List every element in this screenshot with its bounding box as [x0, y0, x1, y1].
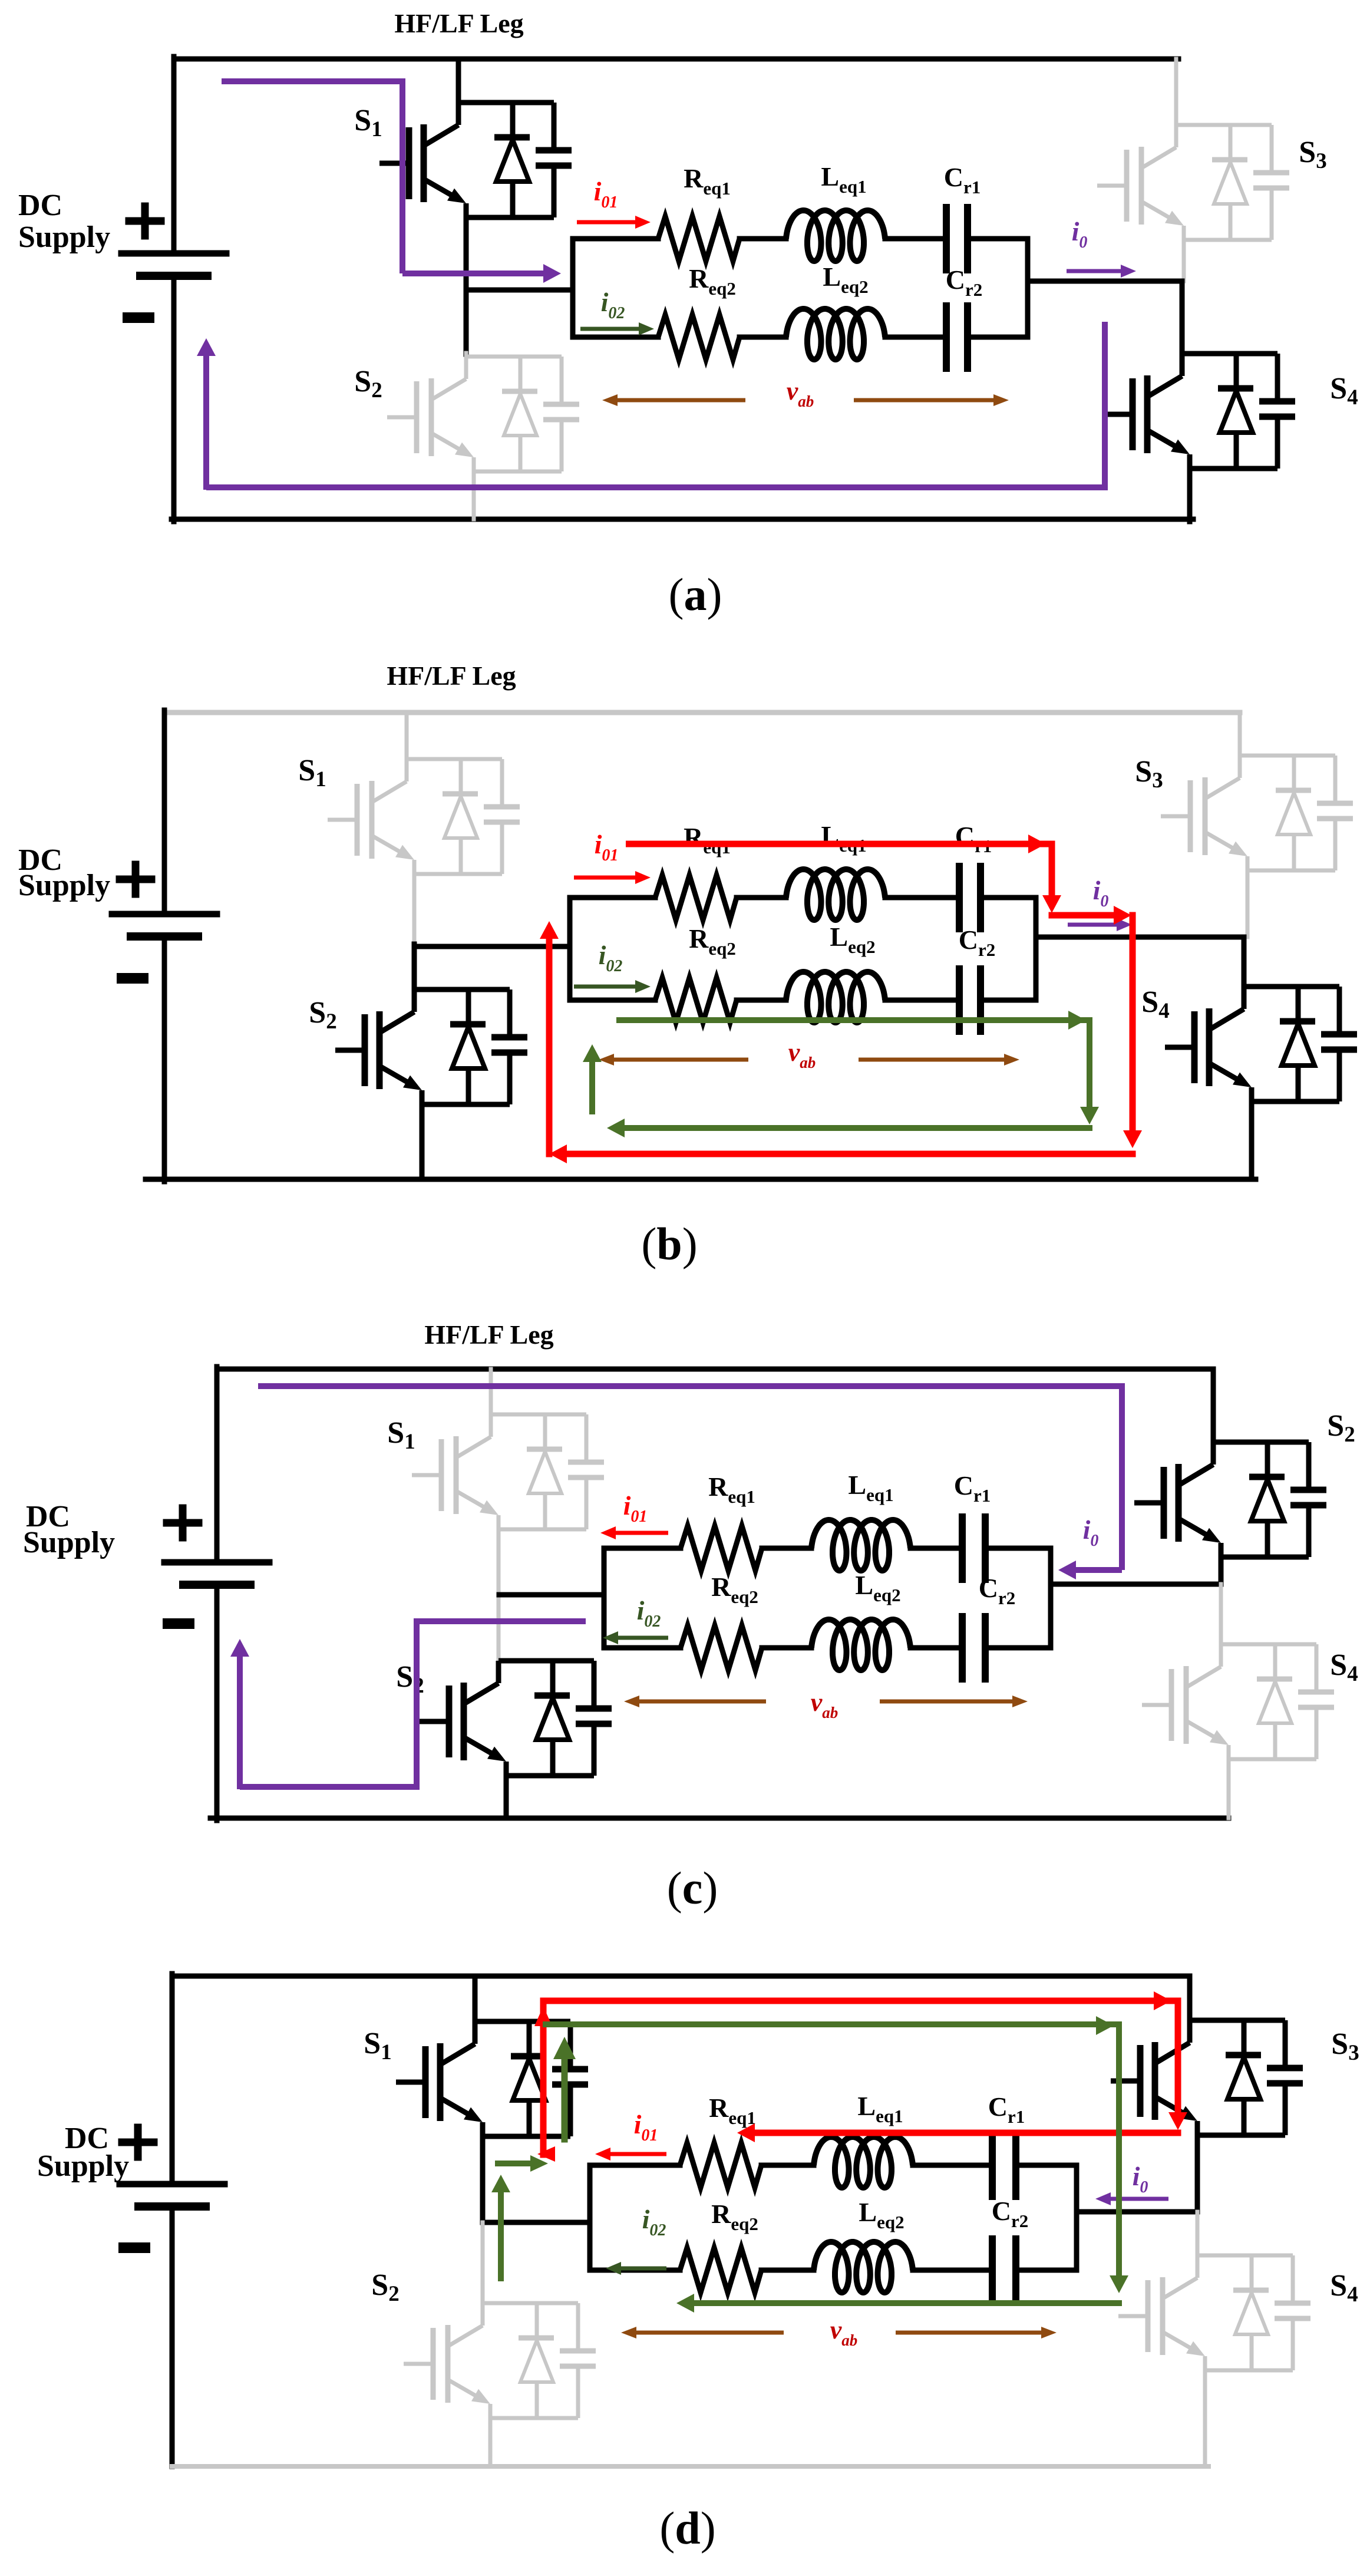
IGBT transistor S3 (d) [1111, 2042, 1191, 2120]
plus terminal (b) [116, 876, 156, 883]
green path bottom return (b) [625, 1125, 1090, 1131]
wire: bottom rail (a) [171, 517, 1193, 522]
IGBT transistor S3 (b) [1161, 777, 1241, 855]
tank (c): top branch wire [604, 1546, 681, 1551]
IGBT module S1 (c): loop frame [491, 1414, 586, 1529]
wire: S1 collector stem (a) [456, 59, 461, 103]
green path up through S1 cap (d) [562, 2057, 568, 2139]
antiparallel diode of S2 (c) [534, 1661, 570, 1776]
DC supply battery [164, 1559, 269, 1566]
plus terminal (a) [126, 217, 165, 225]
antiparallel diode of S2-right (c) [1249, 1442, 1285, 1557]
svg-text:(a): (a) [669, 569, 722, 620]
IGBT module S1 (b): loop frame [407, 759, 502, 874]
green path bottom return (d) [694, 2300, 1119, 2306]
antiparallel diode of S1 (a) [494, 103, 530, 217]
tank (c): left node bar [602, 1548, 607, 1648]
IGBT transistor S2-right (c) [1134, 1464, 1214, 1542]
purple current path through S1 (a) [222, 81, 402, 273]
resistor Req2 (c) [681, 1625, 762, 1670]
IGBT module S4 (c): loop frame [1221, 1644, 1316, 1759]
IGBT transistor S4 (d) [1118, 2277, 1199, 2355]
wire: bottom rail (c) [210, 1816, 1229, 1821]
capacitor Cr1 (d) [989, 2134, 996, 2196]
capacitor Cr2 (d) [989, 2239, 996, 2301]
wire: top rail (c) [217, 1367, 1213, 1372]
tank (b): right node bar [1034, 898, 1039, 1000]
antiparallel diode of S1 (b) [443, 759, 478, 874]
wire: left rail upper (a) [171, 57, 177, 253]
purple return arrow up to battery (a) [203, 349, 209, 490]
antiparallel diode of S2 (d) [519, 2303, 554, 2418]
green path up (b) [589, 1061, 595, 1111]
capacitor Cr2 (c) [959, 1617, 966, 1679]
tank (c): right node bar [1048, 1548, 1054, 1648]
minus terminal (c) [163, 1618, 194, 1629]
wire: S2 emitter to bottom rail (a) - inactive [472, 471, 476, 519]
wire: S1 collector stem (b) - inactive [405, 713, 409, 759]
IGBT module S2 (a): loop frame [466, 357, 562, 471]
wire: S3 emitter to node B (d) [1195, 2133, 1200, 2212]
svg-text:DC: DC [18, 189, 62, 222]
tank (b): top branch wire [570, 895, 655, 901]
IGBT transistor S1 (b) [328, 781, 408, 859]
wire: S4 emitter to bottom rail (a) [1187, 467, 1193, 522]
wire: S2-right collector stem (c) [1211, 1369, 1216, 1442]
current arrow i01 (d) [605, 2152, 666, 2156]
snubber capacitor of S1 (c) [568, 1414, 604, 1529]
red current path top (b) [626, 841, 1052, 847]
vab arrow left (c) [633, 1700, 766, 1704]
wire: node A to S2 collector (b) [412, 944, 417, 989]
resistor Req2 (b) [655, 978, 737, 1023]
purple path from node A down left (c) [240, 1621, 586, 1787]
resistor Req2 (a) [658, 315, 740, 359]
wire: S2 emitter to bottom rail (b) [420, 1103, 425, 1179]
snubber capacitor of S2 (b) [491, 989, 527, 1104]
capacitor Cr1 (a) [943, 207, 950, 270]
inductor Leq2 (d) [814, 2242, 913, 2293]
IGBT transistor S1 (a) [379, 124, 460, 202]
svg-text:Supply: Supply [23, 1526, 115, 1559]
red path top rail (d) [543, 1998, 1178, 2004]
svg-text:HF/LF Leg: HF/LF Leg [387, 661, 516, 691]
snubber capacitor of S2 (c) [576, 1661, 612, 1776]
IGBT transistor S2 (d) [404, 2325, 484, 2403]
DC supply battery [112, 911, 217, 918]
capacitor Cr1 (b) [956, 866, 963, 929]
snubber capacitor of S1 (a) [536, 103, 572, 217]
capacitor Cr1 (c) [959, 1517, 966, 1579]
tank (d): right node bar [1074, 2165, 1080, 2270]
purple current path arrow into node A (a) [402, 271, 550, 276]
wire: left rail lower (a) [171, 275, 177, 522]
wire: left rail lower (b) [162, 935, 167, 1182]
wire: S3 collector stem (d) [1187, 1976, 1193, 2020]
IGBT transistor S1 (c) [412, 1436, 492, 1514]
tank (b): left node bar [567, 898, 573, 1000]
purple current path top and right (c) [258, 1386, 1122, 1570]
svg-text:(b): (b) [641, 1218, 697, 1269]
red path right along node B (b) [1052, 912, 1114, 919]
IGBT module S1 (d): loop frame [475, 2021, 570, 2136]
capacitor Cr2 (a) [943, 306, 950, 368]
antiparallel diode of S4 (c) [1257, 1644, 1292, 1759]
wire: left rail upper (d) [170, 1974, 175, 2184]
battery plates (a) [121, 250, 226, 257]
wire: S1 emitter to node A (b) - inactive [412, 874, 417, 946]
snubber capacitor of S4 (c) [1298, 1644, 1334, 1759]
tank (d): top branch wire [590, 2163, 680, 2168]
antiparallel diode of S2 (a) [502, 357, 537, 471]
snubber capacitor of S1 (d) [552, 2021, 588, 2136]
IGBT module S2 (d): loop frame [483, 2303, 578, 2418]
wire: S2-right emitter to node B (c) [1219, 1555, 1224, 1584]
inductor Leq2 (b) [786, 972, 885, 1023]
wire: node B to S4 collector (a) [1180, 281, 1185, 354]
current arrow i02 (c) [612, 1636, 668, 1640]
antiparallel diode of S4 (d) [1233, 2255, 1269, 2370]
tank (d): bottom branch wire [590, 2268, 680, 2273]
wire: node A to S2 collector (d) - inactive [481, 2222, 485, 2303]
snubber capacitor of S4 (b) [1321, 987, 1357, 1101]
vab arrow left (b) [608, 1058, 748, 1062]
inductor Leq2 (a) [786, 309, 885, 359]
wire: left rail lower (c) [214, 1584, 220, 1820]
wire: S1 emitter to node A (a) [464, 216, 469, 354]
IGBT transistor S3 (a) [1097, 147, 1177, 225]
inductor Leq1 (b) [786, 869, 885, 920]
resistor Req1 (a) [658, 216, 740, 261]
wire: S4 emitter to bottom rail (b) [1249, 1100, 1255, 1179]
resistor Req1 (b) [655, 875, 737, 920]
snubber capacitor of S2 (d) [560, 2303, 596, 2418]
antiparallel diode of S4 (a) [1218, 354, 1253, 469]
svg-text:Supply: Supply [18, 220, 110, 254]
red path up through S1 diode (d) [540, 2003, 547, 2155]
vab arrow right (c) [880, 1700, 1018, 1704]
snubber capacitor of S2-right (c) [1290, 1442, 1326, 1557]
vab arrow right (d) [896, 2331, 1047, 2335]
wire: top rail (a) [174, 57, 1178, 62]
DC supply battery [120, 2181, 225, 2188]
svg-text:Supply: Supply [18, 869, 110, 902]
tank (a): top branch wire [573, 236, 658, 242]
svg-text:HF/LF Leg: HF/LF Leg [424, 1320, 553, 1350]
wire: S2 emitter to bottom rail (d) - inactive [488, 2418, 493, 2466]
IGBT module S2 (b): loop frame [414, 989, 510, 1104]
tank (a): left node bar [570, 239, 576, 337]
svg-text:Supply: Supply [37, 2149, 129, 2183]
red path down to node B (b) [1049, 844, 1055, 893]
purple current path right leg down (a) [206, 322, 1105, 487]
current arrow i01 (b) [574, 876, 641, 880]
tank (b): bottom branch wire [570, 998, 655, 1003]
snubber capacitor of S3 (a) [1253, 125, 1289, 240]
wire: S3 emitter to node B (a) - inactive [1182, 240, 1186, 281]
IGBT transistor S2 (c) [420, 1683, 500, 1760]
IGBT transistor S4 (a) [1103, 375, 1183, 453]
snubber capacitor of S1 (b) [484, 759, 520, 874]
green arrow into node A (d) [498, 2161, 530, 2166]
antiparallel diode of S3 (a) [1212, 125, 1247, 240]
current arrow i0 (d) [1105, 2197, 1168, 2201]
svg-text:(d): (d) [659, 2502, 715, 2554]
wire: S3 collector stem (b) - inactive [1238, 713, 1242, 756]
inductor Leq1 (c) [811, 1520, 910, 1571]
IGBT module S3 (a): loop frame [1176, 125, 1272, 240]
IGBT module S3 (d): loop frame [1190, 2020, 1285, 2135]
wire: node B to S4 collector (d) - inactive [1196, 2212, 1200, 2255]
IGBT transistor S2 (b) [335, 1011, 415, 1089]
plus terminal (d) [118, 2139, 158, 2146]
wire: S1 emitter down through node A (c) - inactive [497, 1529, 501, 1661]
wire: S3 collector stem (a) - inactive [1174, 59, 1178, 125]
IGBT transistor S1 (d) [396, 2043, 476, 2121]
svg-text:HF/LF Leg: HF/LF Leg [394, 8, 523, 38]
antiparallel diode of S2 (b) [450, 989, 486, 1104]
antiparallel diode of S1 (c) [527, 1414, 562, 1529]
vab arrow left (d) [630, 2331, 784, 2335]
green path top (d) [546, 2021, 1119, 2027]
snubber capacitor of S2 (a) [543, 357, 579, 471]
wire: S1 collector stem (c) - inactive [489, 1369, 493, 1414]
vab arrow left (a) [612, 398, 745, 403]
tank (d): left node bar [587, 2165, 593, 2270]
wire: bottom rail (b) [146, 1177, 1256, 1182]
green path down (b) [1087, 1020, 1092, 1105]
snubber capacitor of S3 (d) [1267, 2020, 1303, 2135]
purple return arrow up to battery (c) [237, 1650, 243, 1789]
current arrow i02 (d) [615, 2267, 666, 2271]
wire: node B to S4 collector (b) [1242, 937, 1247, 987]
current arrow i0 (b) [1068, 923, 1123, 927]
wire: S3 emitter to node B (b) - inactive [1246, 870, 1250, 937]
antiparallel diode of S3 (d) [1226, 2020, 1261, 2135]
wire: top rail (b) - inactive [167, 710, 1240, 715]
plus terminal (c) [163, 1519, 203, 1527]
wire: S1 collector stem (d) [473, 1976, 478, 2021]
minus terminal (a) [123, 312, 154, 323]
vab arrow right (a) [854, 398, 999, 403]
resistor Req1 (c) [681, 1526, 762, 1571]
inductor Leq2 (c) [811, 1620, 910, 1670]
capacitor Cr2 (b) [956, 969, 963, 1031]
resistor Req2 (d) [680, 2248, 761, 2293]
wire: left rail upper (c) [214, 1367, 220, 1562]
red path down S4 side (b) [1130, 915, 1136, 1129]
IGBT transistor S4 (b) [1165, 1008, 1245, 1086]
IGBT transistor S2 (a) [387, 378, 467, 456]
wire: node A horizontal (b) [414, 944, 570, 949]
antiparallel diode of S4 (b) [1280, 987, 1315, 1101]
red return path into tank (d) [754, 2130, 1178, 2136]
tank (a): right node bar [1025, 239, 1031, 337]
current arrow i01 (a) [577, 220, 641, 225]
wire: S4 emitter to bottom rail (d) - inactive [1203, 2370, 1207, 2466]
wire: S2 emitter to bottom rail (c) [504, 1774, 509, 1818]
IGBT module S3 (b): loop frame [1240, 756, 1335, 870]
wire: node A horizontal (d) [483, 2220, 590, 2225]
vab arrow right (b) [859, 1058, 1010, 1062]
wire: left rail upper (b) [162, 710, 167, 914]
wire: node A to S2 collector (a) - inactive [464, 353, 468, 357]
purple arrow into node B (c) [1069, 1567, 1122, 1573]
current arrow i01 (c) [610, 1531, 668, 1535]
IGBT module S4 (d): loop frame [1197, 2255, 1293, 2370]
green path down right side (d) [1116, 2026, 1122, 2275]
wire: node A horizontal (c) [499, 1592, 604, 1598]
wire: node A horizontal (a) [466, 288, 573, 293]
IGBT module S1 (a): loop frame [458, 103, 554, 217]
current arrow i02 (b) [574, 985, 641, 989]
IGBT module S4 (a): loop frame [1182, 354, 1277, 469]
IGBT module S4 (b): loop frame [1244, 987, 1339, 1101]
red path up into node A (b) [546, 938, 553, 1154]
inductor Leq1 (d) [814, 2137, 913, 2188]
wire: node B horizontal (a) [1028, 279, 1182, 284]
wire: S1 emitter to node A (d) [480, 2135, 486, 2222]
minus terminal (b) [117, 973, 148, 984]
wire: bottom rail (d) - inactive [172, 2464, 1209, 2469]
wire: left rail lower (d) [170, 2205, 175, 2466]
IGBT module S2 (c): loop frame [499, 1661, 594, 1776]
svg-text:(c): (c) [667, 1862, 718, 1914]
red path bottom return (b) [566, 1151, 1133, 1157]
tank (c): bottom branch wire [604, 1645, 681, 1651]
snubber capacitor of S3 (b) [1317, 756, 1353, 870]
antiparallel diode of S1 (d) [511, 2021, 546, 2136]
resistor Req1 (d) [680, 2143, 761, 2188]
current arrow i02 (a) [580, 327, 645, 331]
green current path top (b) [616, 1017, 1090, 1023]
wire: node B horizontal (c) [1051, 1582, 1221, 1587]
wire: node B horizontal (b) [1036, 935, 1244, 940]
IGBT transistor S4 (c) [1142, 1666, 1222, 1744]
IGBT module S2-right (c): loop frame [1213, 1442, 1309, 1557]
wire: node B to S4 collector (c) - inactive [1219, 1584, 1223, 1644]
snubber capacitor of S4 (d) [1275, 2255, 1310, 2370]
inductor Leq1 (a) [786, 210, 885, 261]
wire: S4 emitter to bottom rail (c) - inactive [1227, 1759, 1231, 1818]
current arrow i0 (a) [1067, 269, 1127, 273]
wire: top rail (d) [172, 1974, 1190, 1979]
minus terminal (d) [118, 2242, 150, 2253]
snubber capacitor of S4 (a) [1259, 354, 1295, 469]
wire: node B horizontal (d) [1077, 2209, 1197, 2215]
tank (a): bottom branch wire [573, 335, 658, 340]
antiparallel diode of S3 (b) [1276, 756, 1311, 870]
green path up from S2 into node A (d) [498, 2192, 504, 2278]
red path down through S3 (d) [1175, 2001, 1181, 2113]
